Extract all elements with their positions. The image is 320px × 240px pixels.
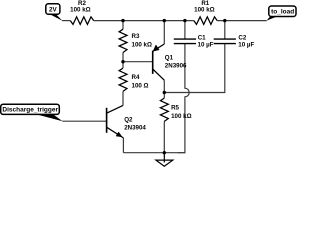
junction node rail/C1 [183, 19, 186, 22]
svg-text:Q2: Q2 [124, 116, 133, 123]
wire Q1 emitter vertical from rail [163, 21, 165, 44]
ground symbol [156, 153, 173, 167]
svg-text:R3: R3 [132, 33, 140, 40]
wire Q2 base from trigger flag [62, 120, 106, 122]
transistor Q2 2N3904 NPN [107, 105, 124, 137]
svg-text:10 µF: 10 µF [238, 41, 254, 48]
wire C1 top: rail to plate [184, 21, 186, 39]
resistor R5 100k vertical [160, 98, 168, 121]
junction node rail/C2 [223, 19, 226, 22]
svg-text:100 kΩ: 100 kΩ [194, 7, 214, 14]
svg-text:100 kΩ: 100 kΩ [171, 113, 191, 120]
svg-text:100 kΩ: 100 kΩ [132, 41, 152, 48]
wire R4 bottom to Q2 collector [122, 91, 124, 105]
wire R3 top: rail to R3 [122, 21, 124, 30]
wire Q1 base: node to bar [123, 61, 153, 63]
junction node Q1 base / R3 / R4 [121, 60, 124, 63]
wire ground rail [123, 152, 185, 154]
svg-text:R4: R4 [132, 74, 140, 81]
svg-text:Q1: Q1 [165, 54, 174, 61]
transistor Q1 2N3906 PNP [153, 44, 165, 80]
resistor R4 100 vertical [119, 68, 127, 91]
junction node Q1 collector / R5 / C2 wire [163, 91, 166, 94]
wire R5 bottom to ground rail [163, 121, 165, 152]
resistor R3 100k vertical [119, 29, 127, 52]
wire Q2 emitter vertical to ground rail [122, 138, 124, 153]
wire node to R5 top [163, 93, 165, 99]
capacitor C1 10uF plates [174, 39, 196, 44]
svg-text:10 µF: 10 µF [198, 41, 214, 48]
svg-text:2N3906: 2N3906 [165, 63, 187, 70]
wire top rail segments [62, 20, 267, 22]
svg-text:Discharge_trigger: Discharge_trigger [2, 107, 58, 114]
svg-text:to_load: to_load [271, 9, 294, 16]
junction node rail/Q1 emitter [163, 19, 166, 22]
svg-text:100 kΩ: 100 kΩ [70, 6, 90, 13]
wire C2 bottom to collector node [164, 44, 225, 93]
svg-text:100 Ω: 100 Ω [132, 82, 149, 89]
junction node ground [163, 151, 166, 154]
resistor R2 100k horizontal [70, 17, 93, 25]
wire R3 bottom to base node [122, 53, 124, 62]
wire R4 top: node to R4 [122, 62, 124, 68]
wire Q1 collector vertical to node [163, 80, 165, 92]
capacitor C2 10uF plates [214, 39, 236, 44]
svg-text:2V: 2V [49, 7, 58, 14]
flag to_load [266, 6, 296, 21]
resistor R1 100k horizontal [194, 17, 217, 25]
wire C2 top: rail to plate [224, 21, 226, 39]
junction node rail/R3 [121, 19, 124, 22]
flag Discharge_trigger [1, 104, 63, 121]
wire C1 bottom down to ground rail with hop over horizontal wire [178, 44, 189, 153]
svg-text:2N3904: 2N3904 [124, 124, 146, 131]
flag 2V [46, 4, 63, 21]
svg-text:R5: R5 [171, 105, 179, 112]
